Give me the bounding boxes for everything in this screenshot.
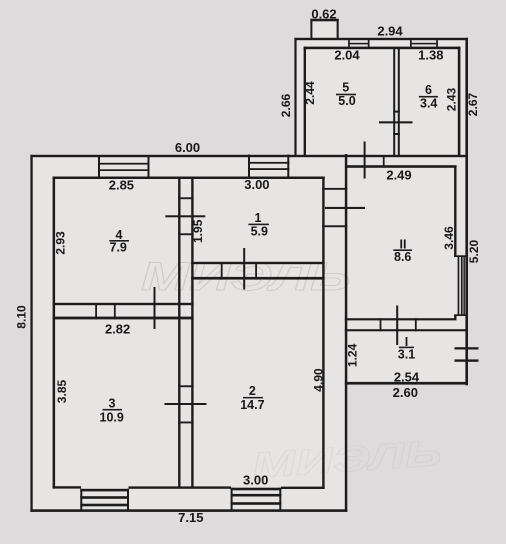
svg-text:3.46: 3.46 (442, 226, 456, 250)
svg-text:2.44: 2.44 (303, 81, 317, 105)
svg-text:8.10: 8.10 (15, 305, 29, 329)
svg-text:5: 5 (342, 81, 349, 95)
svg-text:2.85: 2.85 (109, 177, 134, 192)
svg-text:0.62: 0.62 (311, 7, 336, 22)
svg-text:10.9: 10.9 (100, 410, 124, 424)
svg-text:2.43: 2.43 (445, 87, 459, 111)
svg-text:1: 1 (255, 211, 262, 225)
svg-text:2.93: 2.93 (53, 231, 67, 255)
svg-text:5.9: 5.9 (251, 225, 268, 239)
svg-text:3.00: 3.00 (244, 177, 269, 192)
svg-text:2.94: 2.94 (377, 24, 403, 39)
svg-text:6.00: 6.00 (175, 140, 200, 155)
svg-text:3.4: 3.4 (420, 97, 437, 111)
svg-text:1.24: 1.24 (345, 343, 359, 367)
svg-text:2.60: 2.60 (393, 385, 418, 400)
svg-text:2: 2 (249, 384, 256, 398)
svg-text:8.6: 8.6 (394, 250, 411, 264)
svg-text:5.0: 5.0 (338, 94, 355, 108)
svg-text:3.85: 3.85 (55, 379, 69, 403)
svg-text:2.66: 2.66 (279, 93, 293, 117)
svg-text:5.20: 5.20 (467, 239, 481, 263)
svg-text:2.54: 2.54 (394, 370, 420, 385)
svg-text:4.90: 4.90 (312, 368, 326, 392)
svg-text:2.67: 2.67 (466, 92, 480, 116)
svg-text:1.38: 1.38 (418, 48, 443, 63)
svg-text:2.04: 2.04 (334, 48, 360, 63)
svg-text:2.49: 2.49 (386, 168, 411, 183)
svg-text:1.95: 1.95 (191, 219, 205, 243)
svg-text:14.7: 14.7 (240, 398, 264, 412)
svg-text:6: 6 (425, 83, 432, 97)
svg-text:7.9: 7.9 (110, 240, 127, 254)
svg-text:3: 3 (109, 396, 116, 410)
svg-text:7.15: 7.15 (178, 510, 203, 525)
svg-text:3.00: 3.00 (243, 473, 268, 488)
svg-text:3.1: 3.1 (398, 347, 415, 361)
svg-text:2.82: 2.82 (105, 322, 130, 337)
